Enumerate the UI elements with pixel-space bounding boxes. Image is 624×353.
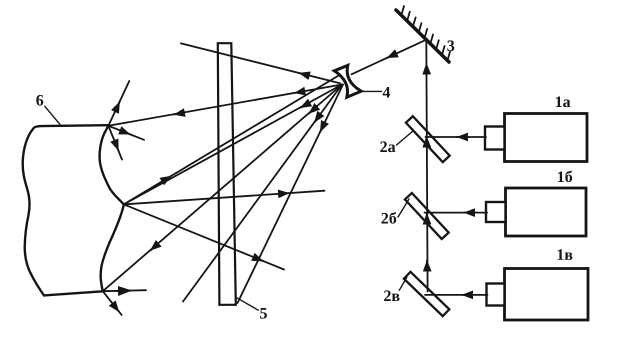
- up arrow on vertical line (top): [425, 64, 427, 75]
- label 2b leader: [398, 199, 409, 217]
- beam splitter 2b: [405, 193, 449, 239]
- ray R4 element 4 to vase point P3: [103, 85, 342, 292]
- beam from laser 1a: [426, 136, 487, 138]
- object 6 bottom edge: [44, 291, 103, 295]
- beam from laser 1v: [425, 294, 488, 296]
- laser 1a snout: [485, 127, 505, 150]
- plate 5: [218, 43, 236, 305]
- object 6 left side: [23, 129, 44, 295]
- label 2a leader: [397, 131, 414, 145]
- ray R3 element 4 to vase point P2: [124, 85, 342, 205]
- ray R2 element 4 to vase point P1: [108, 85, 342, 126]
- ray T3 vase point P1 short steep: [108, 126, 122, 160]
- label 4 leader: [362, 90, 382, 92]
- vertical beam line: [426, 40, 427, 292]
- up arrow on vertical line at splitter 2b: [426, 214, 428, 225]
- up arrow on vertical line at splitter 2a: [426, 137, 428, 148]
- laser 1v snout: [487, 284, 505, 306]
- label 2v leader: [399, 277, 407, 290]
- label 4: [383, 87, 390, 98]
- ray T1 vase point P1 up: [108, 81, 129, 126]
- label 3: [447, 40, 454, 51]
- beam splitter 2a: [406, 116, 450, 162]
- beam from laser 1b: [425, 212, 488, 214]
- label 2v: [384, 290, 399, 301]
- object 6 (vase outline, top edge): [33, 125, 108, 129]
- ray U1 vase point P3 stub right: [103, 290, 146, 291]
- label 6 leader: [45, 106, 60, 124]
- label 1a: [556, 96, 570, 107]
- label 5: [260, 308, 267, 319]
- laser 1v body: [505, 269, 589, 321]
- ray S3 vase point P2 down right: [124, 204, 284, 269]
- mirror 3 hatching: [402, 6, 451, 60]
- ray R5 steep from element 4: [183, 85, 342, 302]
- label 6: [36, 95, 43, 106]
- mirror 3: [396, 10, 449, 62]
- element 4 (small mirror): [334, 65, 361, 97]
- ray U2 vase point P3 down right: [103, 291, 122, 315]
- ray S1 vase point P2 to element 4: [124, 71, 347, 205]
- laser 1a body: [505, 114, 588, 162]
- label 1v: [558, 249, 573, 260]
- beam splitter 2v: [404, 272, 449, 316]
- ray R6 steepest from element 4: [238, 85, 344, 304]
- up arrow on vertical line above splitter 2v: [426, 261, 428, 272]
- ray mirror 3 to element 4: [352, 40, 427, 75]
- object 6 right side: [100, 125, 124, 291]
- laser 1b snout: [486, 202, 506, 222]
- laser 1b body: [506, 188, 587, 236]
- label 1b: [558, 171, 572, 183]
- label 2a: [380, 141, 395, 152]
- label 2b: [381, 212, 396, 224]
- ray T2 vase point P1 short: [108, 126, 144, 140]
- ray S2 vase point P2 to right: [124, 191, 325, 205]
- label 5 leader: [237, 298, 258, 310]
- ray R1 from element 4 to upper left: [181, 43, 340, 83]
